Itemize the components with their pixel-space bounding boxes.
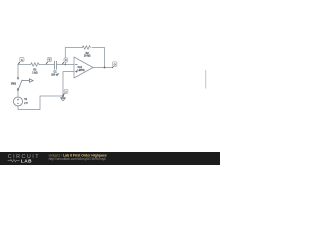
label V1 value: [24, 98, 28, 105]
wire noninverting input to ground junction: [63, 72, 74, 97]
wire feedback right leg: [92, 48, 105, 68]
node flag C (inverting input): [62, 58, 68, 64]
node flag G (ground junction): [63, 90, 68, 96]
junction dot at output/feedback: [104, 67, 106, 69]
label R2 value: [84, 52, 91, 58]
node flag B (between R1 and C1): [46, 57, 52, 64]
resistor R1: [31, 63, 39, 67]
op-amp OA1 triangle: [74, 57, 93, 78]
op-amp plus sign: [75, 71, 77, 73]
resistor R2: [82, 46, 90, 50]
svg-text:LAB: LAB: [21, 158, 32, 163]
node flag O (output): [112, 62, 117, 68]
switch SW1: [17, 78, 33, 91]
wire feedback left leg: [65, 48, 82, 65]
wire R1 to C1: [39, 64, 54, 66]
svg-text:http://circuitlab.com/c6mq5t/7: http://circuitlab.com/c6mq5t/74b9h/myk: [49, 157, 107, 161]
junction dot at feedback/inverting input: [65, 64, 67, 66]
CircuitLab logo resistor zigzag: [8, 160, 20, 162]
label OA1 LM741: [78, 66, 86, 72]
scrollbar artifact line: [205, 70, 207, 88]
op-amp minus sign: [75, 64, 77, 66]
capacitor C1: [55, 61, 57, 69]
label C1 value: [51, 71, 59, 77]
bottom attribution bar: [0, 152, 220, 165]
junction dot at ground node: [62, 95, 64, 97]
voltage source V1: [14, 97, 23, 106]
wire ground junction to source bottom: [18, 96, 63, 110]
label R1 value: [32, 68, 37, 74]
wire output: [93, 67, 112, 69]
ground symbol: [60, 96, 66, 101]
schematic canvas: [0, 0, 220, 165]
wire switch bottom to source top: [17, 90, 19, 97]
wire input top-left corner to R1: [18, 64, 31, 66]
wire input corner down to switch: [17, 65, 19, 78]
node flag A (input): [18, 57, 24, 64]
wire C1 to op-amp inverting input: [57, 64, 75, 66]
